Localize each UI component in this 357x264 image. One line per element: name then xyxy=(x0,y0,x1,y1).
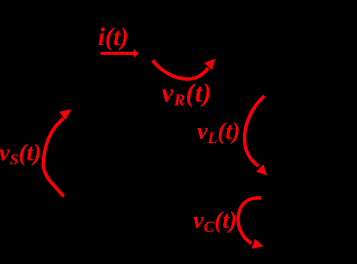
arc arrow vR xyxy=(153,60,208,79)
arrowhead vL xyxy=(256,164,267,175)
svg-text:vC(t): vC(t) xyxy=(193,208,237,236)
arrowhead vR xyxy=(204,59,215,70)
current arrow i(t) xyxy=(101,49,139,58)
arc arrow vC xyxy=(238,198,261,243)
arc arrow vL xyxy=(245,96,265,166)
arrowhead vC xyxy=(252,239,264,249)
arrowhead vS xyxy=(59,109,71,120)
svg-text:vR(t): vR(t) xyxy=(162,79,212,110)
svg-text:vS(t): vS(t) xyxy=(0,141,41,169)
arc arrow vS xyxy=(43,119,63,197)
svg-text:i(t): i(t) xyxy=(98,24,129,51)
svg-text:vL(t): vL(t) xyxy=(197,119,240,147)
